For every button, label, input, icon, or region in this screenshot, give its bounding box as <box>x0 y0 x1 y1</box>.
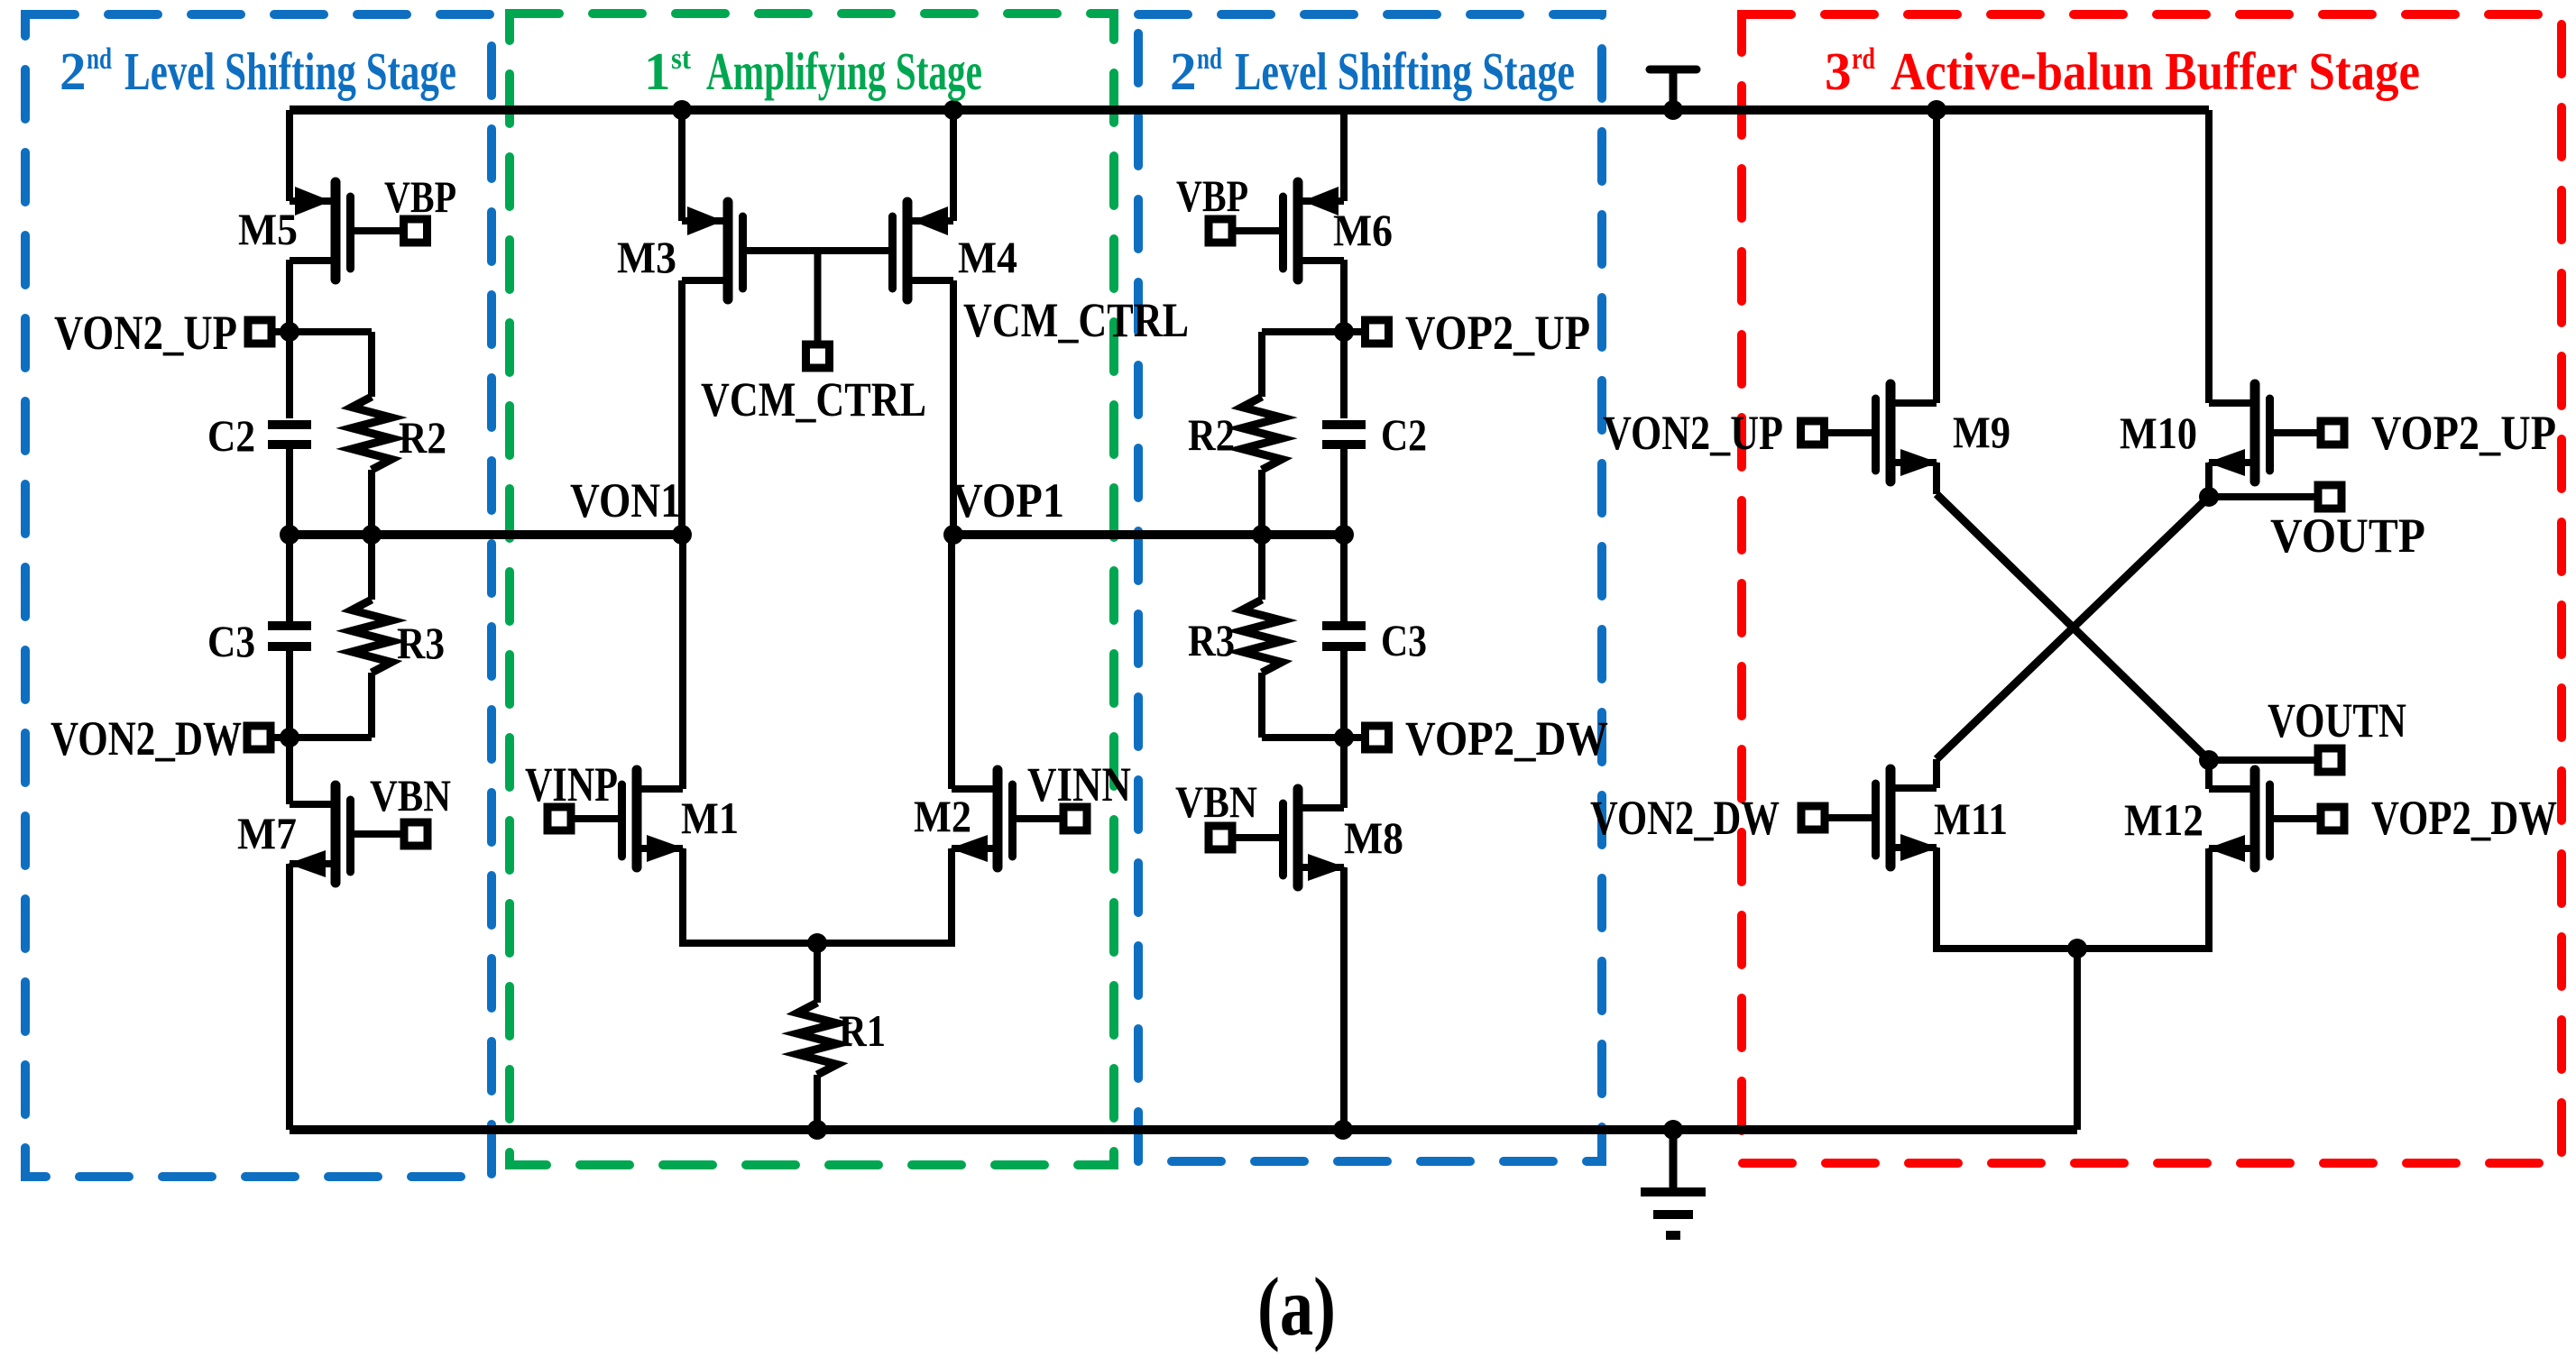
svg-text:VINP: VINP <box>525 757 618 811</box>
svg-text:M3: M3 <box>617 232 676 282</box>
svg-text:VON2_DW: VON2_DW <box>51 711 242 766</box>
svg-text:Level Shifting Stage: Level Shifting Stage <box>124 41 456 101</box>
svg-text:C3: C3 <box>1381 615 1427 665</box>
svg-text:M1: M1 <box>681 793 739 843</box>
svg-text:3: 3 <box>1825 41 1852 101</box>
svg-text:R3: R3 <box>397 618 445 668</box>
svg-text:C2: C2 <box>207 410 255 461</box>
svg-text:VOP1: VOP1 <box>952 473 1064 527</box>
svg-text:Active-balun Buffer Stage: Active-balun Buffer Stage <box>1891 41 2420 101</box>
svg-text:Amplifying Stage: Amplifying Stage <box>706 41 982 101</box>
svg-text:VCM_CTRL: VCM_CTRL <box>701 372 926 426</box>
svg-text:2: 2 <box>60 41 87 101</box>
svg-text:Level Shifting Stage: Level Shifting Stage <box>1235 41 1575 101</box>
svg-text:nd: nd <box>1197 42 1222 76</box>
svg-text:2: 2 <box>1170 41 1197 101</box>
svg-text:R2: R2 <box>1188 409 1235 460</box>
svg-text:st: st <box>671 42 692 76</box>
svg-text:M6: M6 <box>1333 205 1393 255</box>
svg-text:M11: M11 <box>1934 793 2008 844</box>
svg-text:nd: nd <box>87 42 112 76</box>
svg-text:M12: M12 <box>2124 794 2203 845</box>
svg-text:VBN: VBN <box>1175 776 1257 827</box>
svg-text:VINN: VINN <box>1027 757 1131 811</box>
svg-text:VON2_UP: VON2_UP <box>54 306 237 360</box>
svg-text:R3: R3 <box>1188 615 1235 665</box>
svg-text:VON2_UP: VON2_UP <box>1603 406 1783 460</box>
svg-text:rd: rd <box>1852 42 1875 76</box>
svg-text:VOP2_DW: VOP2_DW <box>1405 711 1608 766</box>
svg-text:VON1: VON1 <box>570 473 681 527</box>
svg-text:VOUTP: VOUTP <box>2270 509 2425 563</box>
svg-text:R2: R2 <box>399 412 446 463</box>
svg-text:1: 1 <box>644 41 671 101</box>
svg-text:R1: R1 <box>839 1005 886 1056</box>
svg-text:C2: C2 <box>1381 409 1427 460</box>
svg-text:(a): (a) <box>1257 1261 1336 1352</box>
svg-text:VOP2_UP: VOP2_UP <box>2371 406 2556 460</box>
svg-text:VBP: VBP <box>384 171 456 222</box>
svg-text:VOUTN: VOUTN <box>2268 693 2406 747</box>
svg-text:C3: C3 <box>207 616 255 666</box>
svg-text:VON2_DW: VON2_DW <box>1590 791 1780 845</box>
svg-text:VOP2_DW: VOP2_DW <box>2371 791 2557 845</box>
svg-text:M2: M2 <box>914 791 971 841</box>
svg-text:M10: M10 <box>2120 408 2197 458</box>
svg-text:M7: M7 <box>237 808 297 858</box>
svg-text:M8: M8 <box>1344 812 1403 863</box>
svg-text:VBP: VBP <box>1176 170 1248 221</box>
svg-text:VBN: VBN <box>370 770 451 821</box>
svg-text:M9: M9 <box>1953 407 2010 457</box>
svg-text:VOP2_UP: VOP2_UP <box>1405 306 1590 360</box>
svg-text:M4: M4 <box>958 232 1017 282</box>
svg-text:VCM_CTRL: VCM_CTRL <box>963 293 1189 347</box>
svg-text:M5: M5 <box>238 204 298 254</box>
